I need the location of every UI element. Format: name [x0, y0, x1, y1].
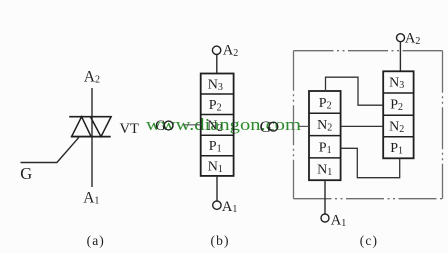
wire left stack to A1 (c) — [324, 180, 326, 214]
gate terminal G (c) — [269, 122, 278, 131]
layer boundary N2/P1 right stack (c) — [383, 136, 413, 138]
wire N2-N2 link (c) — [341, 125, 384, 127]
layer stack (b) — [201, 74, 234, 176]
gate terminal G (b) — [164, 121, 173, 130]
layer boundary N3/P2 right stack (c) — [383, 92, 413, 94]
layer boundary P2/N2 left stack (c) — [309, 112, 341, 114]
layer boundary N2/P1 (b) — [201, 134, 234, 136]
triac VT top bar — [69, 116, 111, 118]
enclosure dash-dot border left edge (c) — [293, 51, 295, 199]
terminal A1 (c) — [321, 214, 329, 222]
gate wire (b) — [184, 124, 201, 126]
wire A2-A1 lead (a) — [91, 88, 93, 187]
layer boundary N2/P1 left stack (c) — [309, 135, 341, 137]
wire A2 to right stack (c) — [399, 42, 401, 72]
layer boundary P1/N1 left stack (c) — [309, 157, 341, 159]
triac VT right triangle — [90, 117, 111, 137]
layer boundary P2/N2 right stack (c) — [383, 114, 413, 116]
svg-text:VT: VT — [120, 121, 139, 137]
wire stack to A1 (b) — [216, 176, 218, 201]
wire P1-P1 link (c) — [341, 148, 400, 177]
layer boundary P2/N2 (b) — [201, 114, 234, 116]
wire A2 to stack (b) — [216, 55, 218, 74]
left stack (c) — [309, 91, 341, 180]
svg-text:(a): (a) — [87, 233, 105, 248]
layer boundary N3/P2 (b) — [201, 93, 234, 95]
layer boundary P1/N1 (b) — [201, 155, 234, 157]
terminal A2 (c) — [397, 34, 405, 42]
enclosure dash-dot border top edge (c) — [294, 50, 443, 52]
svg-text:(c): (c) — [360, 233, 378, 248]
terminal A2 (b) — [212, 46, 220, 54]
svg-text:(b): (b) — [211, 233, 230, 248]
right stack (c) — [383, 71, 413, 158]
gate wire (c) — [299, 125, 309, 127]
triac VT left triangle — [72, 117, 92, 137]
triac VT bottom bar — [71, 136, 111, 138]
gate wire (a) — [21, 137, 79, 162]
svg-text:G: G — [260, 119, 272, 136]
wire P2-P2 link (c) — [326, 77, 384, 105]
svg-text:G: G — [20, 164, 32, 183]
enclosure dash-dot border bottom edge (c) — [294, 198, 443, 200]
enclosure dash-dot border right edge (c) — [442, 51, 444, 199]
terminal A1 (b) — [213, 201, 221, 209]
